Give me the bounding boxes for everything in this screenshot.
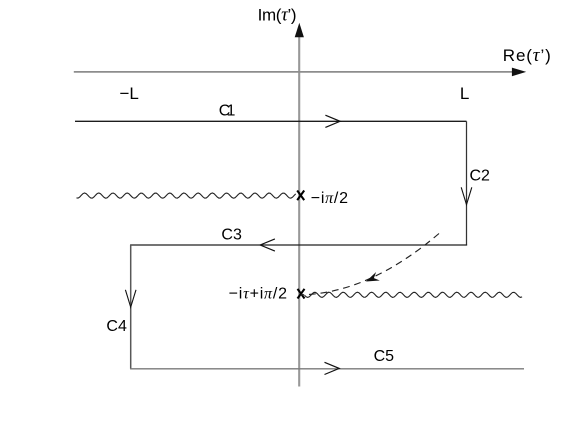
contour C4 (left vertical line)	[130, 245, 132, 369]
svg-text:−iτ+iπ/2: −iτ+iπ/2	[229, 285, 287, 302]
svg-text:C5: C5	[374, 348, 395, 365]
svg-text:Im(τ’): Im(τ’)	[258, 4, 297, 25]
arrowhead on dashed curve	[366, 272, 380, 282]
svg-text:−L: −L	[120, 84, 139, 103]
arrow on C2 (down-pointing chevron)	[461, 187, 472, 204]
branch point marker x at -i pi/2	[297, 191, 304, 201]
contour C1 (top horizontal line)	[75, 120, 467, 122]
Im axis (vertical gray line)	[298, 33, 300, 387]
branch cut wavy line at -i tau + i pi/2	[305, 292, 523, 297]
contour C2 (right vertical line)	[466, 121, 468, 245]
contour C3 (middle horizontal line)	[130, 244, 467, 246]
svg-text:C2: C2	[470, 167, 491, 184]
svg-text:C4: C4	[106, 318, 127, 335]
arrow on C5 (right-pointing chevron)	[325, 362, 340, 374]
arrow on C1 (right-pointing chevron)	[325, 115, 340, 127]
branch cut wavy line at -i pi/2	[77, 193, 296, 198]
Im axis arrowhead	[295, 23, 304, 37]
Re axis arrowhead	[512, 68, 526, 77]
svg-text:L: L	[460, 84, 469, 103]
Re axis (horizontal gray line)	[74, 71, 514, 73]
svg-text:C3: C3	[221, 226, 242, 243]
svg-text:Re(τ’): Re(τ’)	[503, 45, 551, 66]
svg-text:−iπ/2: −iπ/2	[311, 190, 348, 207]
arrow on C3 (left-pointing chevron)	[260, 239, 275, 251]
branch point marker x at -i tau + i pi/2	[298, 289, 305, 299]
contour C5 (bottom horizontal line)	[130, 368, 524, 370]
svg-text:C1: C1	[219, 103, 236, 120]
arrow on C4 (down-pointing chevron)	[125, 290, 136, 307]
dashed pole-motion curve	[301, 234, 439, 295]
